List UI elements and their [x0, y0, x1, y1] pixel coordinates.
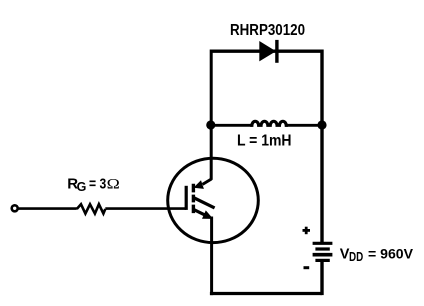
- transistor Q1 channel bar: [192, 184, 195, 213]
- battery minus sign: [304, 266, 310, 269]
- inductor L: [252, 121, 286, 127]
- battery plus sign: [303, 227, 311, 235]
- wire gate left: [18, 207, 77, 210]
- svg-text:G: G: [77, 180, 87, 194]
- label RG = 3ohm: [67, 175, 120, 194]
- battery VDD: [313, 243, 333, 260]
- transistor Q1 gate bar: [185, 186, 188, 210]
- wire right vertical (to battery): [320, 50, 323, 243]
- svg-text:L = 1mH: L = 1mH: [237, 132, 292, 149]
- wire bottom rail: [210, 292, 322, 295]
- node junction left: [206, 120, 215, 129]
- wire gate right: [105, 207, 186, 210]
- wire left vertical (collector branch): [210, 50, 213, 180]
- label VDD = 960V: [340, 246, 414, 265]
- svg-text:DD: DD: [349, 250, 363, 264]
- wire inductor rail: [211, 124, 252, 127]
- node junction right: [317, 120, 326, 129]
- transistor Q1 emitter diagonal with arrow: [194, 210, 213, 219]
- wire emitter vertical: [210, 217, 213, 296]
- resistor RG zigzag: [77, 204, 106, 213]
- transistor Q1 IGBT envelope: [168, 158, 259, 242]
- transistor Q1 body diagonal: [194, 198, 214, 208]
- svg-text:= 3: = 3: [89, 175, 106, 192]
- diode D1 RHRP30120: [259, 40, 277, 63]
- svg-text:Ω: Ω: [107, 176, 120, 192]
- svg-text:RHRP30120: RHRP30120: [230, 22, 305, 39]
- svg-text:= 960V: = 960V: [368, 246, 414, 262]
- terminal gate input: [12, 205, 18, 211]
- transistor Q1 collector diagonal with arrow: [193, 179, 211, 189]
- wire battery bottom: [320, 262, 323, 295]
- wire top rail: [211, 50, 322, 53]
